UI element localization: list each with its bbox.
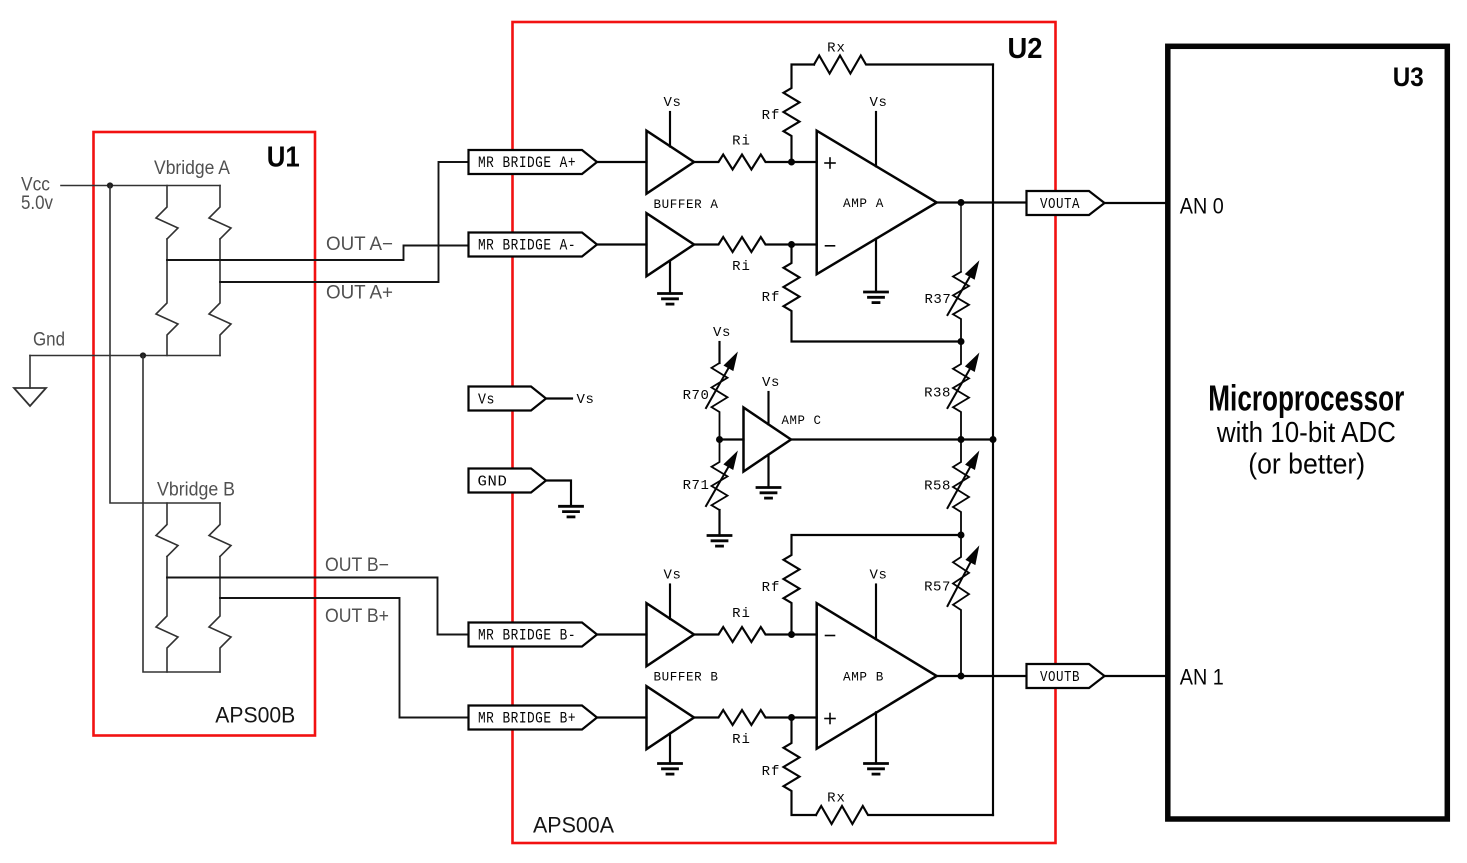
svg-text:with 10-bit ADC: with 10-bit ADC	[1216, 417, 1396, 449]
label APS00B	[215, 703, 295, 728]
label AMP A	[843, 196, 884, 211]
resistor Rf (B- vertical) up to R58/R57 node	[784, 535, 962, 635]
svg-text:VOUTB: VOUTB	[1040, 669, 1080, 686]
wire AMP B output to VOUTB tag	[937, 675, 1027, 677]
svg-text:Vs: Vs	[869, 95, 887, 111]
label Microprocessor	[1208, 378, 1404, 419]
power Vs stub of buffer A1	[663, 95, 681, 147]
wire Gnd drop to bridge B bottom	[143, 356, 220, 673]
label OUT A-	[326, 234, 393, 255]
power Vs stub of AMP B	[869, 568, 887, 640]
op-amp AMP A (triangle)	[817, 131, 937, 275]
resistor bridge A left-bottom	[156, 239, 178, 356]
power Vs stub of buffer B1	[663, 568, 681, 620]
resistor bridge A left-top	[156, 186, 178, 240]
svg-text:Ri: Ri	[732, 134, 751, 150]
resistor R37 (variable)	[948, 203, 979, 342]
junction Vcc	[107, 182, 113, 188]
label Ri (A+)	[732, 134, 751, 150]
resistor Rf (A- vertical) down to R37/R38 node	[784, 245, 962, 342]
svg-text:OUT B−: OUT B−	[325, 555, 389, 576]
svg-text:(or better): (or better)	[1248, 448, 1365, 480]
svg-text:Rf: Rf	[762, 580, 781, 596]
junction Ri/Rf node A-	[788, 241, 795, 248]
wire tag B+ to buffer B2	[597, 716, 647, 718]
svg-text:Vs: Vs	[576, 392, 594, 408]
svg-text:AMP C: AMP C	[782, 413, 822, 428]
junction AMP C input node	[716, 436, 723, 443]
svg-text:MR BRIDGE A+: MR BRIDGE A+	[478, 154, 576, 172]
svg-text:Rf: Rf	[762, 108, 781, 124]
resistor bridge B left-bottom	[156, 557, 178, 673]
svg-text:R58: R58	[924, 479, 951, 495]
power Vs stub of AMP C	[762, 375, 780, 424]
pin AN 0	[1180, 193, 1224, 218]
port tag VOUTA	[1027, 191, 1105, 215]
label U3	[1393, 62, 1424, 92]
svg-text:BUFFER B: BUFFER B	[654, 670, 719, 685]
pin + of AMP B	[825, 714, 835, 724]
label AMP B	[843, 670, 884, 685]
port tag VOUTB	[1027, 664, 1105, 688]
resistor R58 (variable)	[948, 440, 979, 536]
svg-text:R38: R38	[924, 386, 951, 402]
op-amp BUFFER B (triangle 1, B-)	[647, 603, 695, 666]
label R70	[683, 388, 710, 404]
port tag MR BRIDGE A+	[469, 150, 598, 174]
ground below R71	[708, 510, 731, 546]
op-amp BUFFER B (triangle 2, B+)	[647, 686, 695, 749]
wire OUT B+ (bridge B right mid to MR BRIDGE B+ tag)	[220, 598, 469, 718]
op-amp BUFFER A (triangle 1, A+)	[647, 131, 695, 194]
wire GND tag stub	[546, 481, 571, 506]
svg-text:BUFFER A: BUFFER A	[654, 197, 719, 212]
svg-text:R57: R57	[924, 580, 951, 596]
svg-text:U1: U1	[267, 141, 300, 173]
label R37	[925, 292, 952, 308]
label Rf (B+)	[762, 764, 781, 780]
resistor bridge A right-bottom	[209, 239, 231, 356]
svg-text:Gnd: Gnd	[33, 330, 65, 351]
label with 10-bit ADC	[1216, 417, 1396, 449]
junction Ri/Rf node B+	[788, 714, 795, 721]
junction Ri/Rf node A+	[788, 159, 795, 166]
svg-text:OUT A+: OUT A+	[326, 283, 393, 304]
port tag MR BRIDGE A-	[469, 233, 598, 257]
wire VOUTA to U3 AN0	[1105, 202, 1166, 204]
label Rx (bottom)	[827, 791, 846, 807]
svg-text:AN 0: AN 0	[1180, 193, 1224, 218]
resistor bridge B left-top	[156, 503, 178, 557]
wire Vcc rail to bridge A top	[61, 185, 220, 187]
label APS00A	[533, 813, 614, 838]
label Vbridge A	[154, 158, 230, 179]
svg-text:Vs: Vs	[663, 568, 681, 584]
resistor Rf (A+ vertical) up to Rx	[784, 65, 815, 163]
svg-text:Ri: Ri	[732, 606, 751, 622]
port tag Vs	[469, 387, 547, 411]
label Vbridge B	[157, 480, 235, 501]
svg-text:R71: R71	[683, 478, 710, 494]
op-amp BUFFER A (triangle 2, A-)	[647, 213, 695, 276]
label Rf (A+)	[762, 108, 781, 124]
resistor Rx (bottom feedback, horizontal)	[816, 806, 993, 824]
wire tag B- to buffer B1	[597, 633, 647, 635]
label R57	[924, 580, 951, 596]
junction AMP A output	[958, 199, 965, 206]
svg-text:Vs: Vs	[663, 95, 681, 111]
junction AMP C output node (chain)	[958, 436, 965, 443]
ground symbol (open triangle) at Gnd input	[14, 356, 46, 407]
svg-text:U2: U2	[1008, 33, 1043, 65]
ground of buffer A2	[659, 261, 682, 304]
svg-text:MR BRIDGE A-: MR BRIDGE A-	[478, 237, 576, 255]
wire Gnd rail to bridge A bottom	[30, 355, 220, 357]
IC box U3 microprocessor (thick black outline)	[1168, 46, 1448, 819]
svg-text:AN 1: AN 1	[1180, 664, 1224, 689]
ground of buffer B2	[659, 734, 682, 775]
resistor bridge B right-top	[209, 503, 231, 557]
svg-text:Vbridge A: Vbridge A	[154, 158, 230, 179]
port tag MR BRIDGE B-	[469, 623, 598, 647]
svg-text:OUT B+: OUT B+	[325, 606, 389, 627]
wire VOUTB to U3 AN1	[1105, 675, 1166, 677]
svg-text:R70: R70	[683, 388, 710, 404]
resistor bridge B right-bottom	[209, 557, 231, 673]
pin AN 1	[1180, 664, 1224, 689]
svg-text:Vs: Vs	[869, 568, 887, 584]
svg-text:U3: U3	[1393, 62, 1424, 92]
wire OUT B- (bridge B left mid to MR BRIDGE B- tag)	[167, 578, 469, 635]
label U1	[267, 141, 300, 173]
label R71	[683, 478, 710, 494]
resistor R57 (variable)	[948, 535, 979, 676]
svg-text:GND: GND	[478, 474, 508, 491]
svg-text:AMP B: AMP B	[843, 670, 884, 685]
net label Vs (tag)	[576, 392, 594, 408]
ground of AMP C	[757, 455, 780, 498]
svg-text:5.0v: 5.0v	[21, 193, 53, 214]
label R58	[924, 479, 951, 495]
junction Gnd	[140, 352, 146, 358]
op-amp AMP B (triangle)	[817, 603, 937, 749]
svg-text:R37: R37	[925, 292, 952, 308]
resistor Ri (A+, horizontal)	[694, 155, 817, 170]
junction AMP B output	[958, 673, 965, 680]
junction Ri/Rf node B-	[788, 631, 795, 638]
wire OUT A- (bridge A left mid to MR BRIDGE A- tag)	[167, 246, 469, 261]
resistor Ri (A-, horizontal)	[694, 237, 817, 252]
svg-text:VOUTA: VOUTA	[1040, 196, 1080, 213]
wire AMP C output to chain	[791, 438, 995, 440]
svg-text:Vs: Vs	[762, 375, 780, 391]
node Gnd label	[33, 330, 65, 351]
label OUT B+	[325, 606, 389, 627]
resistor Ri (B-, horizontal)	[694, 627, 817, 642]
resistor bridge A right-top	[209, 186, 231, 240]
svg-text:MR BRIDGE B+: MR BRIDGE B+	[478, 710, 576, 728]
label Ri (B-)	[732, 606, 751, 622]
label Rf (B-)	[762, 580, 781, 596]
label AMP C	[782, 413, 822, 428]
wire AMP C input	[720, 438, 744, 440]
label Ri (B+)	[732, 732, 751, 748]
pin - of AMP B	[826, 635, 835, 637]
power Vs stub above R70	[713, 325, 731, 363]
wire Vs tag stub	[546, 397, 572, 399]
svg-text:Microprocessor: Microprocessor	[1208, 378, 1404, 419]
svg-text:AMP A: AMP A	[843, 196, 884, 211]
svg-text:Rf: Rf	[762, 764, 781, 780]
node Vcc label	[21, 175, 53, 214]
label Ri (A-)	[732, 259, 751, 275]
resistor Ri (B+, horizontal)	[694, 710, 817, 725]
junction R37/R38 (Rf A- node)	[958, 338, 965, 345]
label U2	[1008, 33, 1043, 65]
svg-text:Ri: Ri	[732, 259, 751, 275]
svg-text:APS00A: APS00A	[533, 813, 614, 838]
svg-text:Rx: Rx	[827, 41, 846, 57]
label (or better)	[1248, 448, 1365, 480]
svg-text:Vs: Vs	[478, 392, 495, 409]
wire Vcc drop to bridge B top	[110, 186, 220, 504]
resistor Rf (B+ vertical) down to Rx bottom	[784, 718, 817, 816]
label Rx (top)	[827, 41, 846, 57]
resistor R38 (variable)	[948, 342, 979, 440]
label OUT B-	[325, 555, 389, 576]
ground symbol at GND tag	[560, 506, 583, 517]
wire AMP A output to VOUTA tag	[937, 201, 1027, 203]
svg-text:Vs: Vs	[713, 325, 731, 341]
ground of AMP B	[865, 712, 888, 774]
port tag MR BRIDGE B+	[469, 706, 598, 730]
label OUT A+	[326, 283, 393, 304]
svg-text:MR BRIDGE B-: MR BRIDGE B-	[478, 627, 576, 645]
IC box U1 sensor APS00B (red outline)	[94, 132, 316, 736]
svg-text:APS00B: APS00B	[215, 703, 295, 728]
svg-text:Ri: Ri	[732, 732, 751, 748]
op-amp AMP C (triangle)	[744, 408, 792, 472]
resistor R70 (variable)	[706, 353, 737, 440]
junction AMP C output at feedback bus	[990, 436, 997, 443]
resistor R71 (variable)	[706, 440, 737, 511]
resistor Rx (top feedback, horizontal)	[814, 56, 993, 74]
wire tag A+ to buffer A1	[597, 161, 647, 163]
pin + of AMP A	[825, 158, 835, 168]
label Rf (A-)	[762, 290, 781, 306]
label R38	[924, 386, 951, 402]
ground of AMP A	[865, 239, 888, 303]
svg-text:Vbridge B: Vbridge B	[157, 480, 235, 501]
wire tag A- to buffer A2	[597, 243, 647, 245]
port tag GND	[469, 469, 547, 493]
svg-text:Rf: Rf	[762, 290, 781, 306]
label BUFFER A	[654, 197, 719, 212]
IC box U2 amplifier APS00A (red outline)	[513, 22, 1056, 843]
wire right feedback bus (vertical, Rx top to Rx bottom)	[992, 65, 994, 816]
svg-text:OUT A−: OUT A−	[326, 234, 393, 255]
label BUFFER B	[654, 670, 719, 685]
pin - of AMP A	[826, 245, 835, 247]
wire OUT A+ (bridge A right mid to MR BRIDGE A+ tag)	[220, 162, 469, 282]
junction R58/R57 (Rf B- node)	[958, 532, 965, 539]
power Vs stub of AMP A	[869, 95, 887, 166]
svg-text:Rx: Rx	[827, 791, 846, 807]
